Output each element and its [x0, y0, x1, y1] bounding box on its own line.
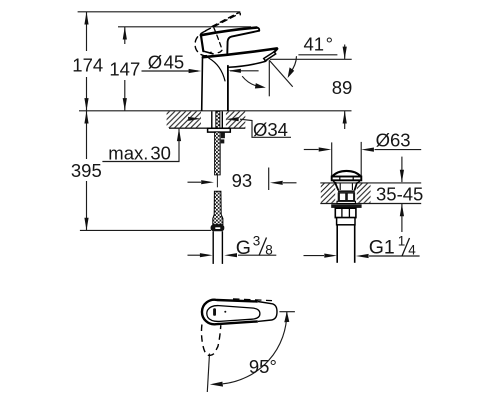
nut highlight slit	[215, 227, 220, 229]
body spout junction curve	[209, 58, 225, 81]
dashed raised handle lower edge	[206, 15, 237, 30]
dim D63 left tail	[304, 149, 319, 151]
arrow 395 bottom	[84, 218, 88, 231]
extension line flange right	[360, 142, 362, 177]
hose braid lower	[213, 191, 223, 224]
drain body inner left	[339, 184, 341, 191]
flange band tick right	[352, 177, 354, 181]
counter top line drain	[320, 182, 421, 184]
hose center line	[216, 175, 218, 187]
arrow G114 left	[324, 254, 337, 258]
dim line 89 bottom arrow tail	[344, 111, 346, 129]
svg-text:3: 3	[253, 233, 261, 248]
aerator	[264, 52, 276, 61]
arrow 395 top	[84, 111, 88, 124]
arrow 93 right	[270, 181, 283, 185]
arrow 89 top	[343, 47, 347, 60]
arrow D45 right	[228, 69, 241, 73]
arrowheads	[84, 12, 404, 387]
handle inner panel	[207, 306, 260, 322]
dim G114 left tail	[304, 255, 325, 257]
svg-text:1: 1	[398, 234, 406, 249]
slot window right	[348, 194, 353, 200]
dim 35-45 bottom arrow tail	[401, 204, 403, 232]
arrow 147 bottom	[123, 98, 127, 111]
arrow D34 left	[188, 117, 201, 121]
washer	[208, 128, 231, 132]
dashed finger outline	[201, 325, 220, 356]
shank left wall	[211, 111, 213, 128]
ref line spout outlet level (89 datum)	[270, 58, 352, 60]
arrow 174 bottom	[84, 98, 88, 111]
countertop surface line	[79, 110, 352, 112]
dim D63 right tail with underline	[375, 149, 422, 151]
svg-text:G1: G1	[369, 237, 395, 259]
leader D45	[142, 70, 199, 72]
svg-text:395: 395	[71, 160, 102, 181]
leader max30	[102, 128, 179, 161]
hose connector nut	[211, 225, 225, 232]
dim G38 right tail underline	[238, 254, 276, 256]
counter hatch left of hole	[167, 111, 201, 128]
shelf line 41deg	[298, 54, 337, 56]
handle tip reference tick	[279, 311, 295, 313]
svg-text:4: 4	[408, 242, 416, 257]
drain body taper right	[355, 183, 357, 190]
flange neck right	[356, 180, 360, 183]
dim line 89 top arrow tail	[344, 45, 346, 60]
hose braid middle	[215, 132, 221, 175]
dim line 174	[86, 12, 88, 111]
drain counter hatch left	[321, 184, 335, 203]
handle dot	[224, 311, 226, 313]
arrow D63 left	[319, 147, 332, 151]
arrow max30	[177, 128, 181, 141]
svg-text:Ø45: Ø45	[148, 51, 184, 72]
shank right wall	[221, 111, 223, 128]
svg-text:Ø63: Ø63	[376, 129, 411, 150]
extension line flange left	[331, 142, 333, 176]
spout tip face	[266, 49, 278, 61]
ref line top of raised handle (174 datum)	[78, 11, 241, 13]
dim G114 right tail underline	[369, 255, 420, 257]
dim tail D45 right	[230, 70, 259, 72]
dashed raised handle upper edge	[212, 13, 238, 26]
lever underside	[227, 31, 259, 54]
arrow 35-45 top	[400, 170, 404, 183]
hose braid upper	[216, 111, 220, 128]
text G38 slash	[259, 238, 267, 256]
dashed raised handle pivot arc	[214, 28, 222, 53]
svg-text:89: 89	[332, 77, 353, 98]
arrow 95deg bottom	[210, 382, 223, 387]
counter bottom line	[169, 127, 245, 129]
drain tube left wall	[336, 225, 338, 263]
arrow G114 right	[356, 254, 369, 258]
arrow 35-45 bottom	[400, 204, 404, 217]
arrow D63 right	[361, 148, 374, 152]
handle outline	[202, 300, 258, 325]
hex facet left	[341, 209, 343, 218]
svg-text:max.30: max.30	[108, 143, 171, 164]
arrow 95deg top	[284, 311, 289, 322]
flange band	[332, 177, 362, 181]
stud lower	[221, 139, 225, 143]
flange neck left	[333, 180, 337, 183]
slot window left	[340, 194, 345, 200]
arc spray swing	[242, 76, 261, 87]
flange band tick left	[339, 177, 341, 181]
arrow D45 left	[189, 69, 202, 73]
lever tip	[257, 28, 260, 31]
arrow 174 top	[84, 12, 88, 25]
drain tube right wall	[354, 225, 356, 263]
text G114 slash	[402, 238, 410, 256]
dashed raised handle butt	[195, 31, 211, 56]
svg-text:147: 147	[109, 59, 140, 80]
dashed raised handle tip	[238, 13, 241, 15]
svg-text:35-45: 35-45	[376, 183, 423, 204]
svg-text:41°: 41°	[304, 33, 333, 54]
extension line outlet vertical upper	[268, 60, 270, 96]
G38 tube right wall	[221, 231, 223, 264]
dim line 395	[86, 111, 88, 231]
water stream diagonal 41deg	[269, 60, 292, 86]
arrow G38 left	[200, 253, 213, 257]
arrow spray arc	[255, 83, 266, 88]
nut step	[337, 218, 355, 225]
arrow 41deg arc	[288, 67, 295, 78]
lever bottom left edge	[203, 51, 213, 54]
svg-text:8: 8	[265, 243, 273, 258]
spout underside	[229, 62, 265, 68]
drain body inner right	[351, 184, 353, 191]
dashed handle rotated edge top	[233, 299, 272, 301]
lever top edge	[201, 28, 257, 36]
dim G38 left tail	[188, 254, 202, 256]
drain slot section	[338, 192, 355, 201]
stud upper	[221, 132, 225, 138]
G38 tube left wall	[212, 231, 214, 264]
handle axis extension line	[207, 354, 209, 393]
flange dome	[332, 171, 361, 177]
dim line 147	[124, 27, 126, 111]
arrow 89 bottom	[343, 111, 347, 124]
body left edge	[201, 57, 204, 110]
hex facet right	[348, 209, 350, 218]
dim 93 left tail	[188, 181, 202, 183]
svg-text:93: 93	[232, 170, 253, 191]
arrow G38 right	[224, 253, 237, 257]
svg-text:Ø34: Ø34	[253, 119, 288, 140]
extension line outlet vertical lower	[268, 168, 270, 191]
body right edge	[227, 66, 229, 111]
svg-text:G: G	[236, 237, 251, 259]
svg-text:174: 174	[72, 55, 103, 76]
drain body taper left	[335, 183, 338, 190]
arc 41deg	[290, 56, 296, 72]
drain lower band	[337, 201, 355, 203]
drain counter hatch right	[357, 184, 371, 203]
handle end cap	[258, 302, 277, 322]
hex nut	[335, 208, 356, 217]
leader D34	[240, 119, 291, 137]
drain body band	[338, 190, 355, 192]
handle pivot bar	[213, 308, 216, 316]
arrow 93 left	[201, 180, 214, 184]
locknut flange	[331, 204, 361, 208]
arrow D34 right	[226, 117, 239, 121]
counter hatch right of hole	[226, 111, 245, 128]
svg-text:95°: 95°	[249, 356, 277, 377]
dim 93 right tail	[283, 182, 297, 184]
lever left face	[201, 35, 203, 51]
counter bottom line drain	[320, 203, 421, 205]
ref line bottom of hose (395 datum)	[80, 229, 211, 231]
spout top edge	[203, 48, 277, 57]
ref line top of lever (147 datum)	[118, 26, 251, 28]
arrow 147 top	[123, 27, 127, 40]
dim 35-45 top arrow tail	[401, 157, 403, 183]
arc 95deg	[223, 312, 287, 384]
